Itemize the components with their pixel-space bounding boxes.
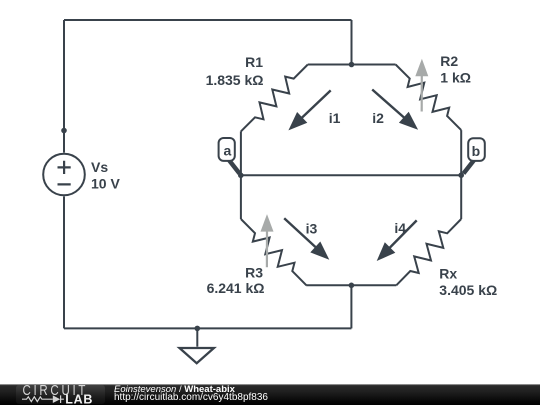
svg-text:a: a [224, 143, 232, 159]
svg-text:10 V: 10 V [91, 175, 120, 191]
svg-text:R3: R3 [245, 265, 263, 281]
svg-text:R1: R1 [245, 54, 263, 70]
svg-text:i2: i2 [372, 110, 384, 126]
svg-text:i4: i4 [394, 220, 406, 236]
svg-text:b: b [472, 143, 481, 159]
svg-text:1 kΩ: 1 kΩ [440, 70, 471, 86]
svg-text:1.835 kΩ: 1.835 kΩ [206, 72, 264, 88]
svg-text:3.405 kΩ: 3.405 kΩ [439, 282, 497, 298]
svg-text:i3: i3 [306, 220, 318, 236]
svg-text:R2: R2 [440, 53, 458, 69]
svg-text:LAB: LAB [65, 392, 93, 405]
svg-text:Vs: Vs [91, 159, 108, 175]
svg-text:i1: i1 [329, 110, 341, 126]
svg-text:6.241 kΩ: 6.241 kΩ [207, 280, 265, 296]
svg-text:Rx: Rx [439, 265, 457, 281]
